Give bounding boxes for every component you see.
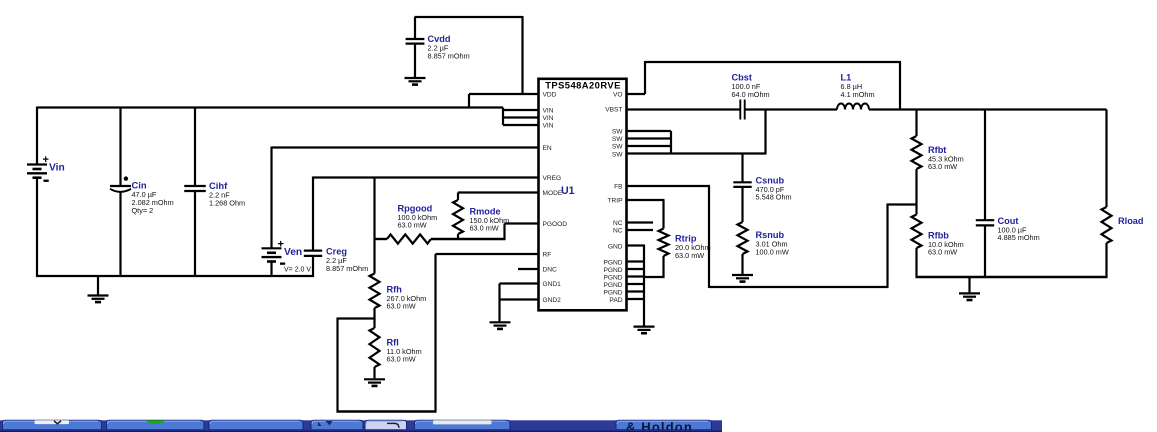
svg-text:VDD: VDD [543,92,557,99]
svg-text:U1: U1 [561,185,575,197]
svg-text:Creg: Creg [326,247,347,257]
svg-text:5.548 Ohm: 5.548 Ohm [756,193,792,202]
svg-text:VREG: VREG [543,175,562,182]
svg-text:VIN: VIN [543,123,554,130]
svg-text:Rmode: Rmode [470,206,501,216]
svg-text:VIN: VIN [543,115,554,122]
svg-text:PGND: PGND [603,282,622,289]
svg-text:Rfbb: Rfbb [928,230,949,240]
svg-text:Rfbt: Rfbt [928,145,946,155]
svg-text:+: + [43,154,49,166]
svg-text:GND: GND [608,243,623,250]
svg-text:V= 2.0 V: V= 2.0 V [284,266,311,273]
svg-text:Cin: Cin [132,180,147,191]
svg-text:Rsnub: Rsnub [756,230,785,240]
svg-text:63.0 mW: 63.0 mW [398,221,427,230]
svg-text:63.0 mW: 63.0 mW [675,251,704,260]
svg-text:8.857 mOhm: 8.857 mOhm [326,264,368,273]
svg-text:Rload: Rload [1118,216,1144,226]
svg-text:TRIP: TRIP [607,198,623,205]
svg-text:63.0 mW: 63.0 mW [928,248,957,257]
svg-text:Vin: Vin [49,162,65,173]
svg-text:Qty= 2: Qty= 2 [132,206,154,215]
svg-text:PAD: PAD [609,297,622,304]
svg-text:PGND: PGND [603,267,622,274]
svg-text:SW: SW [612,144,623,151]
svg-text:4.1 mOhm: 4.1 mOhm [841,90,875,99]
svg-text:MODE: MODE [543,190,563,197]
svg-text:VBST: VBST [605,107,622,114]
svg-text:EN: EN [543,145,552,152]
svg-text:63.0 mW: 63.0 mW [387,302,416,311]
svg-text:+: + [278,239,284,251]
svg-text:PGND: PGND [603,289,622,296]
svg-text:NC: NC [613,220,623,227]
svg-text:Ven: Ven [284,247,302,258]
svg-text:Rpgood: Rpgood [398,203,433,213]
svg-text:Cout: Cout [998,216,1019,226]
svg-text:GND2: GND2 [543,297,562,304]
svg-text:L1: L1 [841,73,852,83]
svg-text:PGND: PGND [603,259,622,266]
svg-text:Cvdd: Cvdd [428,34,451,44]
svg-text:DNC: DNC [543,267,558,274]
svg-text:Cbst: Cbst [732,73,752,83]
svg-text:GND1: GND1 [543,281,562,288]
svg-text:Rfl: Rfl [387,337,399,347]
svg-text:63.0 mW: 63.0 mW [387,355,416,364]
svg-text:1.268 Ohm: 1.268 Ohm [209,198,245,207]
svg-text:100.0 mW: 100.0 mW [756,247,789,256]
svg-text:Rtrip: Rtrip [675,234,697,244]
svg-text:FB: FB [614,184,623,191]
svg-text:PGND: PGND [603,274,622,281]
svg-text:8.857 mOhm: 8.857 mOhm [428,51,470,60]
svg-text:Cihf: Cihf [209,180,228,191]
svg-text:NC: NC [613,228,623,235]
svg-text:RF: RF [543,252,552,259]
svg-text:Csnub: Csnub [756,175,785,185]
svg-text:SW: SW [612,129,623,136]
svg-text:63.0 mW: 63.0 mW [470,224,499,233]
svg-text:VIN: VIN [543,108,554,115]
svg-text:64.0 mOhm: 64.0 mOhm [732,90,770,99]
svg-text:PGOOD: PGOOD [543,221,568,228]
svg-text:VO: VO [613,92,623,99]
svg-text:SW: SW [612,136,623,143]
svg-text:SW: SW [612,151,623,158]
svg-text:63.0 mW: 63.0 mW [928,162,957,171]
svg-text:TPS548A20RVE: TPS548A20RVE [545,80,621,91]
svg-text:4.885 mOhm: 4.885 mOhm [998,233,1040,242]
svg-text:Rfh: Rfh [387,284,403,294]
